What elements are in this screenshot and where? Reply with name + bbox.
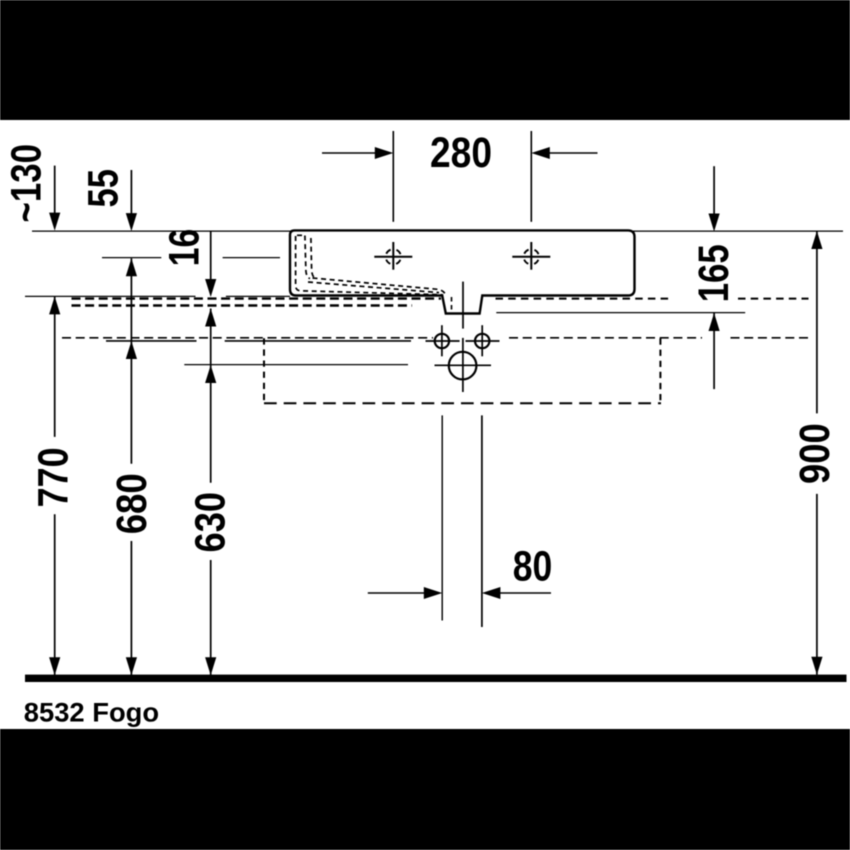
tap hole left: centerlines xyxy=(374,256,412,258)
wire: 680-level solid reference line xyxy=(106,340,197,342)
basin hidden contour: sloping bottom lower line dashed xyxy=(308,282,439,293)
dimension 280: left arrow xyxy=(322,152,376,154)
dimension 80: extension lines xyxy=(441,415,443,620)
svg-text:280: 280 xyxy=(430,129,492,177)
svg-text:16: 16 xyxy=(161,229,209,267)
drain circle horizontal centerline xyxy=(435,364,492,366)
svg-text:8532 Fogo: 8532 Fogo xyxy=(24,697,159,727)
drain stub interior hidden edge (dashed) xyxy=(451,297,453,313)
svg-text:80: 80 xyxy=(513,543,553,591)
svg-text:~130: ~130 xyxy=(2,144,50,223)
wire: bottom-of-basin level line (770 level) xyxy=(25,295,196,297)
dimension 55/680 line at x=131.4 xyxy=(130,170,132,214)
fixing hole right centerlines xyxy=(466,340,500,342)
dimension 80: right arrow xyxy=(500,592,552,594)
svg-text:55: 55 xyxy=(80,169,128,208)
wire: 165-level reference line xyxy=(496,312,745,314)
basin hidden contour: inner wall thickness dashed xyxy=(311,238,315,278)
drain circle vertical centerline xyxy=(462,338,464,392)
svg-text:900: 900 xyxy=(791,423,839,484)
dimension 280: right extension line xyxy=(530,131,532,222)
dimension 16/630 line at x=210.7 xyxy=(210,231,212,280)
bottom letterbox band xyxy=(0,729,850,850)
wire: dashed furniture top line (680 level) xyxy=(62,337,433,339)
drain centerline xyxy=(462,282,464,329)
dimension 280: left extension line xyxy=(392,131,394,222)
dimension ~130/770 line at x=54.7 xyxy=(54,166,56,214)
dimension 80: left arrow xyxy=(368,592,425,594)
fixing hole right circle xyxy=(475,334,489,348)
tap hole right: centerlines xyxy=(512,256,550,258)
svg-text:680: 680 xyxy=(108,473,156,534)
basin hidden contour: sloping bottom upper line dashed xyxy=(313,278,446,295)
sink outline (cross-section of washbasin body) xyxy=(290,230,635,313)
svg-text:770: 770 xyxy=(30,447,78,507)
svg-text:630: 630 xyxy=(187,492,235,553)
dimension 280: right arrow xyxy=(549,152,598,154)
wire: 630-level reference line xyxy=(184,364,408,366)
wire: top reference level line (upper edge of basin) xyxy=(32,230,843,232)
tap hole right: dashed circle xyxy=(524,249,539,264)
drain circle (siphon outlet) xyxy=(449,352,477,380)
dimension 900 line at x=816.9 xyxy=(811,231,822,249)
dimension 165 line at x=714.1 xyxy=(713,166,715,214)
top letterbox band xyxy=(0,0,850,120)
basin hidden contour: outer left wall dashed xyxy=(296,236,443,295)
basin hidden contour: rim top dashed xyxy=(297,234,305,236)
wire: dashed mounting line just under basin xyxy=(72,297,442,299)
basin hidden contour: inner wall dashed xyxy=(305,236,310,279)
dashed clearance rectangle bottom edge xyxy=(264,402,661,404)
fixing hole left centerlines xyxy=(426,340,460,342)
floor line (thick) xyxy=(25,675,847,682)
fixing hole left circle xyxy=(435,334,449,348)
wire: 55-level short reference line xyxy=(102,257,161,259)
dashed clearance rectangle left edge xyxy=(263,338,265,402)
wire: dashed line 16mm below (second mounting line) xyxy=(72,304,413,307)
svg-text:165: 165 xyxy=(690,244,738,302)
tap hole left: dashed circle xyxy=(386,249,401,264)
dashed clearance rectangle right edge xyxy=(659,339,661,404)
